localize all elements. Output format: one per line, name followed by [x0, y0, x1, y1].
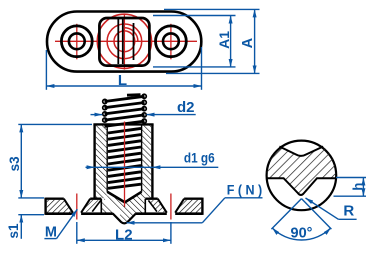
front view: central red centerline: [124, 122, 126, 208]
svg-text:F ( N ): F ( N ): [227, 182, 263, 198]
top view: central thread insert outer red circle: [97, 14, 151, 68]
dimension s3 extension lines: [18, 124, 92, 197]
top view: central red circle middle: [107, 24, 142, 59]
top view: left hole vertical centerline: [76, 24, 78, 60]
top view: coil end line: [133, 23, 135, 60]
90 degree angle dimension: [271, 199, 331, 242]
svg-text:s3: s3: [7, 156, 22, 172]
svg-text:L: L: [118, 72, 127, 89]
front view: drill point V: [107, 192, 141, 203]
front view: flange bottom edges: [46, 212, 203, 215]
dimension h: [350, 178, 365, 197]
top view: central red circle inner (thread minor): [114, 31, 135, 52]
top view: horizontal red centerline: [55, 40, 197, 42]
top view: right hole vertical centerline: [170, 24, 172, 60]
front view: wire thread insert coil above boss: [103, 94, 147, 126]
dimension d1 g6: [86, 150, 219, 168]
label M with leader: [44, 209, 77, 240]
dimension d2: [91, 99, 196, 116]
svg-text:d2: d2: [177, 99, 195, 116]
svg-text:L2: L2: [115, 227, 133, 244]
svg-text:A: A: [240, 37, 256, 48]
svg-text:h: h: [350, 183, 365, 191]
dimension A extension lines: [164, 9, 260, 73]
top view: obround plate outline: [47, 12, 201, 72]
dimension s1 extension line: [18, 214, 44, 216]
front view: hole red centerlines: [77, 194, 171, 220]
front view: bore walls: [107, 124, 141, 191]
dimension A1: [216, 16, 232, 67]
dimension A: [240, 9, 256, 73]
label F (N) with leader: [127, 182, 263, 223]
svg-text:s1: s1: [6, 223, 21, 239]
front view: boss outline: [93, 124, 153, 198]
top view: thread major arc (NE quadrant): [124, 28, 137, 42]
svg-text:A1: A1: [216, 31, 232, 49]
front view: flange end faces: [46, 198, 203, 215]
label R with leader: [306, 198, 357, 219]
top view: left counterbored hole: [61, 26, 92, 57]
front view: boss hatched walls: [96, 126, 151, 199]
front view: wire thread insert coil inside bore: [108, 128, 141, 188]
front view: stud press-fit seams: [101, 199, 145, 213]
front view: stud through-section hatch: [101, 199, 145, 223]
front view: flange plate hatched sections: [47, 200, 201, 213]
front view: protruding cone tip: [113, 213, 136, 223]
svg-text:90°: 90°: [291, 225, 313, 241]
dimension A1 extension lines: [153, 16, 236, 67]
top view: central vertical red centerline: [123, 14, 125, 70]
front view: flange top edges: [46, 197, 203, 199]
top view: right counterbored hole: [156, 26, 187, 57]
front view: right countersink hole: [158, 199, 184, 213]
svg-text:R: R: [343, 202, 354, 219]
top view: central boss rounded-square outline: [99, 18, 149, 66]
dimension h extension lines: [334, 178, 367, 197]
front view: hatch white band on stud section: [105, 200, 120, 215]
dimension s1: [6, 215, 21, 239]
dimension L: [46, 72, 201, 89]
front view: hatch wedges beside drill point: [107, 192, 141, 199]
front view: left countersink hole: [64, 199, 90, 213]
dimension L extension lines: [46, 47, 201, 90]
front view: plate hole chamfer lines: [92, 200, 157, 211]
dimension s3: [7, 124, 22, 197]
top view: insert tang lines: [118, 19, 123, 64]
dimension L2 extension lines: [77, 222, 171, 244]
detail view: circle: [267, 141, 337, 211]
detail view: hatched section blob: [266, 147, 336, 196]
svg-text:d1 g6: d1 g6: [184, 150, 215, 166]
dimension L2: [77, 227, 171, 244]
